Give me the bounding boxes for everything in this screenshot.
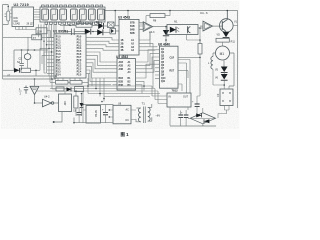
svg-text:P0.4: P0.4 <box>77 47 82 50</box>
svg-text:2B: 2B <box>121 43 124 45</box>
IC U3 4543 <box>115 11 146 56</box>
svg-text:XT: XT <box>33 37 37 40</box>
wire double bus left <box>3 48 56 79</box>
svg-text:DC: DC <box>126 119 130 122</box>
svg-text:A3B: A3B <box>119 68 124 71</box>
svg-text:P1.7: P1.7 <box>56 57 61 59</box>
bridge rectifier VC <box>188 108 216 126</box>
resistor R4 <box>70 81 82 85</box>
wire bus U5 to U6 (staircase) <box>140 50 155 94</box>
diode VD5 (vertical) <box>80 94 84 117</box>
wire bottom-left power rail <box>53 104 114 124</box>
wire cluster feeds to U1 pins <box>40 48 47 73</box>
svg-text:Q10: Q10 <box>161 78 166 80</box>
resistor R14 <box>75 87 84 92</box>
svg-text:VD: VD <box>217 34 221 37</box>
svg-text:IN: IN <box>169 96 172 99</box>
display digit cells <box>42 9 104 20</box>
svg-text:R11: R11 <box>231 41 236 44</box>
U6 left pins <box>155 50 160 79</box>
pins <box>108 110 137 120</box>
capacitor C10 <box>181 110 188 126</box>
resistor R2 <box>21 68 40 76</box>
svg-text:U4-2: U4-2 <box>44 95 50 99</box>
crystal Y1 box <box>3 28 54 50</box>
svg-text:P1.3: P1.3 <box>56 45 61 47</box>
svg-text:1B: 1B <box>121 40 124 42</box>
diode D5 <box>97 29 110 35</box>
svg-text:T1: T1 <box>142 102 146 106</box>
svg-text:78L05: 78L05 <box>95 110 98 117</box>
svg-text:P3.1: P3.1 <box>56 66 61 68</box>
U1 right pins <box>86 38 90 74</box>
buffer U4-6 <box>200 11 222 31</box>
U2 left pins <box>10 10 13 17</box>
svg-text:CZ: CZ <box>217 93 220 97</box>
U2 right pins <box>34 10 41 20</box>
svg-text:U1 89S51: U1 89S51 <box>53 30 68 34</box>
wire horizontal node row <box>14 49 48 70</box>
svg-text:P0.0: P0.0 <box>77 37 82 39</box>
svg-text:P1.4: P1.4 <box>56 47 61 50</box>
svg-text:U4 - 6: U4 - 6 <box>200 11 208 15</box>
svg-text:D2: D2 <box>96 20 100 24</box>
diode D2 <box>96 20 108 29</box>
regulator U9 7805 (vertical box) <box>83 91 101 123</box>
capacitor C9 (electrolytic) <box>192 101 200 115</box>
wire <box>114 11 115 26</box>
svg-text:Q11: Q11 <box>161 81 166 83</box>
wire bottom rail <box>170 125 216 126</box>
diode VD6 <box>215 67 228 73</box>
inverter U4-2 <box>34 95 59 107</box>
connector CZ box <box>217 85 233 118</box>
svg-text:N1: N1 <box>174 20 178 24</box>
svg-text:P1.0: P1.0 <box>56 37 61 39</box>
U3 left pins <box>115 40 119 50</box>
wire MCU bottom verticals <box>88 78 104 102</box>
svg-text:U3 4543: U3 4543 <box>118 15 130 19</box>
wire U3 top to bus <box>127 11 129 20</box>
top bus wire <box>105 10 238 12</box>
wire display underline <box>60 22 70 32</box>
display top pin tabs <box>42 5 103 7</box>
buffer U4-3 <box>140 22 167 34</box>
svg-text:P2.1: P2.1 <box>77 63 82 65</box>
svg-text:P2.3: P2.3 <box>77 69 82 71</box>
U5 right pins <box>136 62 141 85</box>
regulator 7812 <box>167 88 191 125</box>
svg-text:3B: 3B <box>121 47 124 49</box>
node junction dots <box>8 6 229 99</box>
diode D4 <box>85 29 98 35</box>
svg-text:M1: M1 <box>220 52 225 56</box>
svg-text:P0.7: P0.7 <box>77 57 82 59</box>
svg-text:P0.1: P0.1 <box>77 40 82 42</box>
capacitor C4 <box>64 29 85 36</box>
capacitor C7 (electrolytic) <box>102 105 108 123</box>
diode D6 box <box>110 28 119 34</box>
U1 bottom pins <box>58 78 80 81</box>
wire long verticals mid-right <box>150 32 153 88</box>
U1 left pins <box>47 38 54 74</box>
svg-text:P1.6: P1.6 <box>56 54 61 56</box>
svg-text:P2.2: P2.2 <box>77 66 82 68</box>
svg-text:P3.0: P3.0 <box>56 63 61 65</box>
svg-text:B2B: B2B <box>119 81 124 83</box>
wire under MCU <box>50 76 88 89</box>
resistor R11 <box>216 38 235 46</box>
resistor R3 <box>56 81 69 85</box>
svg-text:A2B: A2B <box>119 64 124 67</box>
wire bottom buses <box>36 86 167 104</box>
svg-text:图 1: 图 1 <box>121 131 130 138</box>
svg-text:CLR: CLR <box>170 57 175 59</box>
capacitor C1 <box>3 5 10 25</box>
U5 left pins <box>113 62 118 85</box>
capacitor C5 <box>24 86 28 94</box>
svg-text:P1.5: P1.5 <box>56 51 61 53</box>
capacitor C6 (electrolytic) <box>73 108 82 123</box>
svg-text:B1B: B1B <box>130 26 135 28</box>
svg-text:RST: RST <box>56 60 61 62</box>
svg-text:7812: 7812 <box>172 88 179 92</box>
svg-text:P2.0: P2.0 <box>77 60 82 62</box>
svg-text:P2.4: P2.4 <box>77 70 82 73</box>
resistor R6 <box>64 20 99 28</box>
svg-text:B4B: B4B <box>130 28 135 31</box>
left border wire <box>2 5 4 80</box>
IC U6 4040 <box>155 42 200 93</box>
svg-text:P3.2: P3.2 <box>56 69 61 71</box>
diode VD7 <box>215 73 228 85</box>
resistor R13 (vertical) <box>74 91 78 116</box>
resistor R5 <box>56 87 64 91</box>
op-amp U4-1 (down triangle) <box>19 79 39 103</box>
svg-text:R6: R6 <box>78 20 82 24</box>
svg-text:A1B: A1B <box>119 61 124 64</box>
svg-text:OUT: OUT <box>183 96 189 99</box>
wire <box>64 24 99 26</box>
svg-text:P0.3: P0.3 <box>77 45 82 47</box>
wire <box>103 25 108 27</box>
diode D7 <box>67 87 72 91</box>
transistor V1 <box>220 11 238 33</box>
U3 right pins <box>139 23 146 51</box>
svg-text:P0.6: P0.6 <box>77 54 82 56</box>
svg-text:~6V: ~6V <box>155 114 160 118</box>
fuse F1 <box>108 11 120 28</box>
U2 bottom pins <box>16 27 27 30</box>
transformer T1 <box>136 102 160 124</box>
resistor R9 (pull, vertical) <box>187 39 203 104</box>
svg-text:JZC: JZC <box>63 101 67 106</box>
button S2 <box>17 50 31 68</box>
crystal load box <box>32 35 42 40</box>
svg-text:28 127: 28 127 <box>27 24 35 26</box>
right border wire <box>237 11 239 109</box>
svg-text:RST: RST <box>170 70 175 72</box>
svg-text:B1B: B1B <box>119 78 124 80</box>
svg-text:P0.2: P0.2 <box>77 42 82 44</box>
svg-text:LOAD: LOAD <box>14 23 21 26</box>
vertical bundle U2 to U1 <box>16 24 57 79</box>
diode VD3 <box>217 32 230 39</box>
motor M1 <box>213 46 234 86</box>
svg-text:P3.3: P3.3 <box>56 71 61 73</box>
optocoupler N1 <box>167 20 203 44</box>
svg-text:B2B: B2B <box>130 33 135 35</box>
svg-text:AC: AC <box>126 109 130 112</box>
resistor R8 <box>146 11 170 23</box>
wire U3 right to U4-3 <box>144 23 158 55</box>
U6 right pins <box>178 57 200 93</box>
display bottom pin tabs <box>45 22 102 24</box>
capacitor C3 <box>20 64 24 71</box>
wire <box>3 31 54 51</box>
IC U5 4543 <box>113 55 141 90</box>
rectifier box U10 <box>108 103 137 124</box>
svg-text:P1.1: P1.1 <box>56 40 61 42</box>
relay K1 <box>59 91 72 112</box>
svg-text:P0.5: P0.5 <box>77 51 82 53</box>
svg-text:B7B: B7B <box>130 23 135 25</box>
svg-text:P1.2: P1.2 <box>56 42 61 44</box>
svg-text:4B: 4B <box>121 49 124 52</box>
diode VD1 <box>3 68 20 78</box>
diode D3 <box>163 27 169 47</box>
capacitor C11 <box>178 111 183 127</box>
svg-text:P2.5: P2.5 <box>77 74 82 76</box>
IC U1 (MCU 89S51) <box>47 30 90 81</box>
wire <box>64 31 85 33</box>
inductor L1 <box>208 57 224 86</box>
IC U2 (display driver 7219) <box>10 3 41 29</box>
wire bus MCU to U3/U5 (staircase) <box>89 38 116 85</box>
display DS1 (7-segment module) <box>40 5 105 24</box>
